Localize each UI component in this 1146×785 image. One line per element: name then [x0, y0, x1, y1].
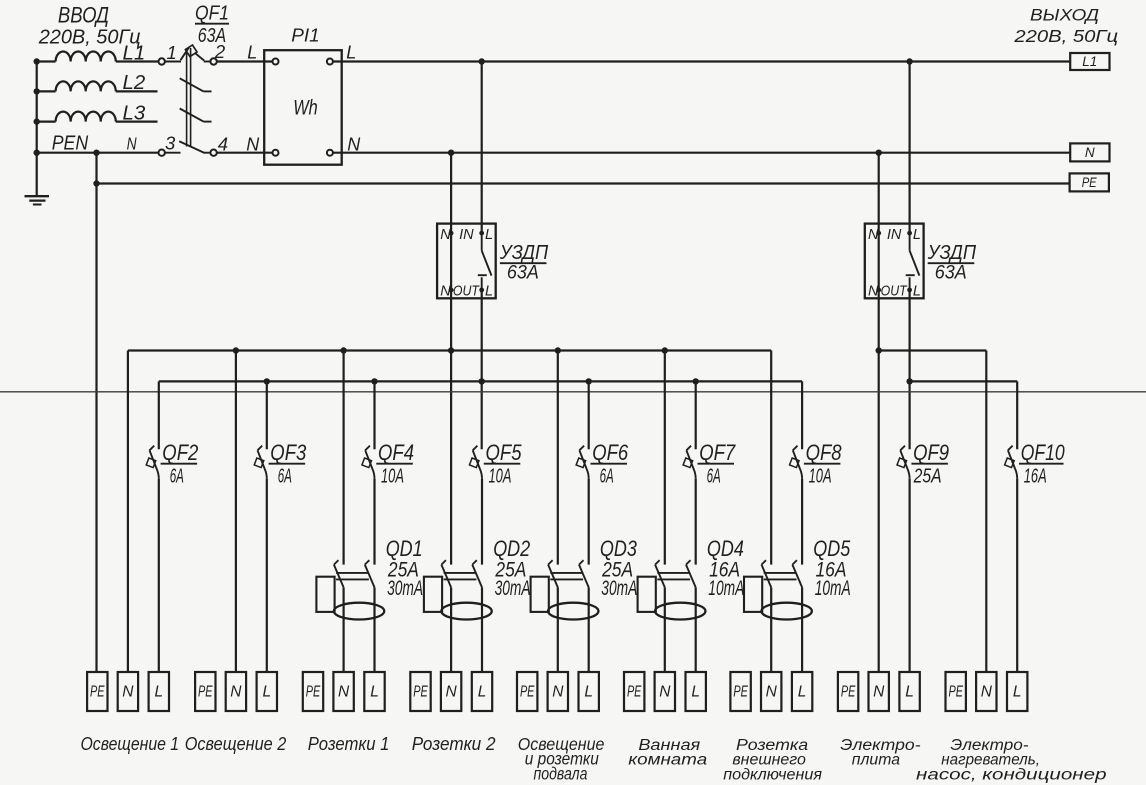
- svg-text:комната: комната: [628, 752, 707, 769]
- svg-text:PE: PE: [733, 684, 748, 701]
- svg-text:30mА: 30mА: [495, 577, 531, 600]
- svg-text:L: L: [913, 227, 921, 243]
- output terminal box N: [1070, 143, 1109, 161]
- terminal box N group 2: [226, 672, 246, 711]
- svg-text:QD4: QD4: [707, 536, 744, 561]
- svg-text:L: L: [485, 227, 493, 243]
- junction dot УЗДП2 L at bus: [906, 378, 912, 384]
- wire: group 7 L tail to terminal: [801, 587, 803, 672]
- terminal box PE group 4: [410, 672, 430, 711]
- wire: input vertical bus: [36, 62, 38, 197]
- wire: right L distribution bus: [910, 380, 1018, 382]
- pin label N right of meter: [347, 134, 361, 154]
- УЗДП terminal dots: [449, 231, 484, 293]
- load label group 3: Розетки 1: [308, 734, 390, 754]
- wire: left N distribution bus: [128, 349, 771, 351]
- wire: group 3 N tail to terminal: [343, 587, 345, 672]
- RCD QD3 mechanical bar: [550, 573, 583, 580]
- svg-text:QF1: QF1: [195, 1, 229, 24]
- svg-text:L3: L3: [123, 102, 146, 124]
- wire: group 3 L tail to terminal: [373, 587, 375, 672]
- svg-text:10А: 10А: [381, 465, 404, 488]
- svg-text:QD3: QD3: [600, 536, 638, 561]
- svg-text:63А: 63А: [198, 24, 226, 47]
- inductor coil L2 with wires: [37, 81, 158, 91]
- svg-text:N: N: [122, 684, 134, 701]
- svg-text:L: L: [247, 43, 257, 63]
- breaker QF1 terminal circle 3: [159, 150, 181, 156]
- wire: group 7 N drop: [770, 351, 772, 565]
- load label group 5: Освещение и розетки подвала: [518, 734, 605, 784]
- svg-text:L: L: [691, 684, 700, 701]
- terminal box L group 5: [579, 672, 599, 711]
- svg-text:N: N: [873, 684, 885, 701]
- svg-text:L: L: [346, 43, 356, 63]
- svg-text:63А: 63А: [507, 263, 539, 284]
- svg-text:QD2: QD2: [493, 536, 530, 561]
- wire: N row from input bus to terminal 3: [37, 152, 159, 154]
- RCD QD2 test box: [424, 577, 442, 612]
- RCD QD4 switch blades: [655, 560, 696, 587]
- wire: group 6 N drop: [664, 351, 666, 565]
- wire: group 6 L drop upper: [695, 381, 697, 449]
- terminal box L group 6: [686, 672, 706, 711]
- RCD QD3 test box: [531, 577, 549, 612]
- net label PEN: [52, 132, 89, 154]
- svg-text:10mА: 10mА: [708, 577, 744, 600]
- svg-text:PE: PE: [198, 684, 213, 701]
- wire: group 3 N drop: [343, 351, 345, 565]
- svg-text:Розетки 2: Розетки 2: [412, 734, 496, 754]
- svg-text:PE: PE: [90, 684, 105, 701]
- svg-text:1: 1: [167, 42, 177, 63]
- pin label L right of meter: [346, 43, 356, 63]
- load label group 2: Освещение 2: [185, 733, 287, 754]
- wire: group 9 L wire QF to terminal: [1016, 479, 1018, 672]
- svg-text:QF4: QF4: [378, 440, 414, 465]
- svg-text:PE: PE: [413, 684, 428, 701]
- svg-text:L: L: [262, 684, 271, 701]
- terminal box PE group 9: [946, 672, 966, 711]
- terminal box L group 4: [472, 672, 492, 711]
- RCBO УЗДП box: [437, 224, 496, 299]
- svg-text:Освещение 2: Освещение 2: [185, 733, 287, 754]
- wire: group 4 L drop upper: [0, 0, 1, 1]
- junction dots on left L bus: [264, 378, 699, 384]
- svg-text:L: L: [905, 684, 914, 701]
- RCD QD5 test box: [744, 577, 762, 612]
- wire: УЗДП2 L feed vertical lower: [908, 290, 910, 449]
- breaker QF1 pole 2 blade: [180, 78, 212, 91]
- svg-text:PE: PE: [306, 684, 321, 701]
- svg-text:PI1: PI1: [291, 24, 320, 45]
- label QF5 10А: [484, 440, 522, 488]
- terminal box N group 5: [548, 672, 568, 711]
- net label N: [127, 133, 137, 153]
- label QF7 6А: [698, 440, 736, 488]
- RCBO УЗДП1 group: [0, 0, 1, 1]
- wire: group 1 L drop upper: [158, 381, 160, 449]
- RCD QD2 switch blades: [441, 560, 482, 587]
- wire: neutral N row from meter to output terminal N: [333, 152, 1070, 154]
- output terminal box PE: [1070, 173, 1109, 191]
- wire: УЗДП1 L feed vertical lower: [481, 290, 483, 449]
- svg-text:Розетки 1: Розетки 1: [308, 734, 390, 754]
- terminal box L group 9: [1007, 672, 1027, 711]
- RCD QD3 differential transformer: [548, 603, 598, 620]
- svg-text:N: N: [338, 684, 350, 701]
- svg-text:10mА: 10mА: [815, 577, 851, 600]
- svg-text:PE: PE: [841, 684, 856, 701]
- label QD2 25А 30mА: [493, 536, 530, 600]
- pin label N left of meter: [217, 134, 273, 154]
- svg-text:10А: 10А: [809, 465, 832, 488]
- RCD QD1 differential transformer: [334, 603, 384, 620]
- wire: group 4 L tail to terminal: [481, 587, 483, 672]
- УЗДП pin labels IN row: [440, 227, 493, 243]
- wire: PE row to output terminal PE: [97, 182, 1070, 184]
- breaker QF3 blade: [254, 446, 267, 479]
- svg-text:6А: 6А: [600, 465, 614, 488]
- pin number 4: [218, 133, 228, 154]
- svg-text:УЗДП: УЗДП: [499, 241, 548, 264]
- wire: УЗДП1 L feed vertical upper: [481, 62, 483, 234]
- load label group 8: Электро- плита: [840, 737, 920, 769]
- wire: group 2 L wire QF to terminal: [266, 479, 268, 672]
- svg-text:QD1: QD1: [386, 536, 423, 561]
- svg-text:ВВОД: ВВОД: [58, 2, 109, 27]
- breaker QF1 pole 3 blade: [180, 109, 212, 122]
- RCD QD4 test box: [638, 577, 656, 612]
- svg-text:220В, 50Гц: 220В, 50Гц: [1013, 26, 1118, 46]
- terminal box N group 9: [976, 672, 996, 711]
- breaker QF5 blade: [469, 446, 482, 479]
- svg-text:PEN: PEN: [52, 132, 89, 154]
- label QD1 25А 30mА: [386, 536, 423, 600]
- junction dot N row / UZDP1 tap: [448, 150, 454, 156]
- svg-text:QF8: QF8: [806, 440, 843, 465]
- terminal box L group 2: [257, 672, 277, 711]
- output terminal box L1: [1070, 53, 1109, 70]
- svg-text:подвала: подвала: [534, 764, 588, 784]
- label QF2 6А: [161, 440, 199, 488]
- wire: group 7 L drop upper: [801, 381, 803, 449]
- terminal box N group 7: [761, 672, 781, 711]
- load label group 9: Электро- нагреватель, насос, кондиционер: [916, 737, 1107, 784]
- terminal box PE group 8: [838, 672, 858, 711]
- RCD QD4 differential transformer: [655, 603, 705, 620]
- terminal box PE group 5: [517, 672, 537, 711]
- wire: PEN vertical drop to PE: [95, 153, 97, 672]
- wire: group 3 L drop upper: [373, 381, 375, 449]
- terminal box N group 1: [118, 672, 138, 711]
- terminal box N group 4: [441, 672, 461, 711]
- svg-text:4: 4: [218, 133, 228, 154]
- svg-text:L1: L1: [123, 42, 146, 64]
- RCD QD5 differential transformer: [761, 603, 811, 620]
- breaker QF1 pole 4 blade: [179, 141, 204, 153]
- RCBO УЗДП2 group: [0, 0, 1, 1]
- RCD QD2 mechanical bar: [444, 573, 477, 580]
- junction dot УЗДП1 L at bus: [479, 378, 485, 384]
- svg-text:N: N: [246, 134, 260, 154]
- wire: УЗДП1 N feed vertical: [450, 153, 452, 565]
- wire: phase L row from meter to output terminal L1: [333, 60, 1070, 62]
- svg-text:насос, кондиционер: насос, кондиционер: [916, 767, 1107, 784]
- wire: group 5 N drop: [557, 351, 559, 565]
- wire: group 7 N tail to terminal: [770, 587, 772, 672]
- junction dots on left N bus: [233, 347, 668, 353]
- pin number 3: [165, 132, 176, 153]
- terminal box PE group 7: [730, 672, 750, 711]
- wire: УЗДП2 N feed vertical: [878, 153, 880, 672]
- svg-text:N: N: [440, 284, 451, 300]
- meter terminal circles: [273, 59, 333, 156]
- wire: group 1 L wire QF to terminal: [158, 479, 160, 672]
- svg-text:IN: IN: [887, 227, 902, 243]
- svg-text:N: N: [347, 134, 361, 154]
- junction node PEN split: [93, 150, 99, 156]
- svg-text:N: N: [659, 684, 671, 701]
- svg-text:QF5: QF5: [486, 440, 523, 465]
- header: input label ВВОД 220В 50Гц: [38, 2, 141, 48]
- wire: УЗДП2 L feed vertical upper: [908, 62, 910, 234]
- pin number 1: [167, 42, 177, 63]
- svg-text:N: N: [440, 227, 451, 243]
- terminal box N group 8: [869, 672, 889, 711]
- svg-text:QF10: QF10: [1021, 440, 1066, 465]
- wire: group 4 N tail to terminal: [450, 587, 452, 672]
- terminal box PE group 6: [624, 672, 644, 711]
- wire: group 4 L wire QF to RCD: [481, 479, 483, 565]
- load label group 1: Освещение 1: [81, 733, 180, 754]
- junction dot N row / UZDP2 tap: [876, 150, 882, 156]
- label QF1 63A: [195, 1, 229, 47]
- wire: group 5 N tail to terminal: [557, 587, 559, 672]
- breaker QF1 terminal circle 1: [159, 58, 182, 64]
- svg-text:QF2: QF2: [162, 440, 198, 465]
- label QF4 10А: [376, 440, 414, 488]
- svg-text:N: N: [445, 684, 457, 701]
- label QF8 10А: [804, 440, 842, 488]
- load label group 7: Розетка внешнего подключения: [723, 737, 822, 784]
- svg-text:30mА: 30mА: [601, 577, 637, 600]
- inductor coil L3 with wires: [37, 112, 158, 122]
- svg-text:L: L: [1013, 684, 1022, 701]
- svg-text:QF3: QF3: [270, 440, 307, 465]
- svg-text:L: L: [798, 684, 807, 701]
- label УЗДП 63А: [499, 241, 548, 284]
- junction dot L row / UZDP2 tap: [906, 58, 912, 64]
- svg-text:L: L: [485, 284, 493, 300]
- svg-text:OUT: OUT: [881, 284, 908, 300]
- net label L2: [123, 72, 146, 94]
- svg-text:10А: 10А: [489, 465, 512, 488]
- breaker QF8 blade: [790, 446, 803, 479]
- УЗДП internal switch blade: [478, 233, 492, 290]
- svg-text:N: N: [868, 227, 879, 243]
- RCD QD1 switch blades: [334, 560, 375, 587]
- УЗДП pin labels OUT row: [440, 284, 493, 300]
- label QF3 6А: [269, 440, 307, 488]
- junction dot УЗДП1 N at bus: [448, 347, 454, 353]
- svg-text:N: N: [230, 684, 242, 701]
- net label L1: [123, 42, 146, 64]
- wire: group 6 L tail to terminal: [695, 587, 697, 672]
- wire: terminal 2 to meter PI1: [217, 60, 273, 62]
- svg-text:QD5: QD5: [813, 536, 851, 561]
- svg-text:L2: L2: [123, 72, 146, 94]
- svg-text:QF6: QF6: [592, 440, 629, 465]
- svg-text:УЗДП: УЗДП: [927, 241, 976, 264]
- svg-text:PE: PE: [948, 684, 963, 701]
- breaker QF4 blade: [362, 446, 375, 479]
- RCD QD3 switch blades: [548, 560, 589, 587]
- RCD QD1 mechanical bar: [336, 573, 369, 580]
- svg-text:OUT: OUT: [453, 284, 480, 300]
- inductor coil L1 with wires: [37, 51, 159, 61]
- svg-text:N: N: [127, 133, 137, 153]
- svg-text:L: L: [154, 684, 163, 701]
- junction dot PE branch: [93, 180, 99, 186]
- svg-text:N: N: [981, 684, 993, 701]
- label УЗДП 63А: [927, 241, 976, 284]
- terminal box L group 7: [792, 672, 812, 711]
- svg-text:L1: L1: [1082, 54, 1097, 69]
- label PI1: [291, 24, 320, 45]
- svg-text:Освещение 1: Освещение 1: [81, 733, 180, 754]
- svg-text:N: N: [1085, 145, 1095, 160]
- breaker QF9 blade: [897, 446, 910, 479]
- breaker QF2 blade: [146, 446, 159, 479]
- RCBO УЗДП box: [865, 224, 924, 299]
- net label L3: [123, 102, 146, 124]
- RCD QD5 mechanical bar: [764, 573, 797, 580]
- junction dots on input bus: [34, 58, 40, 156]
- terminal box N group 6: [655, 672, 675, 711]
- junction dot УЗДП2 N at bus: [876, 347, 882, 353]
- svg-text:6А: 6А: [707, 465, 721, 488]
- ground symbol: [25, 196, 50, 204]
- terminal box PE group 1: [87, 672, 107, 711]
- svg-text:L: L: [478, 684, 487, 701]
- RCD QD2 differential transformer: [441, 603, 491, 620]
- wire: group 5 L wire QF to RCD: [588, 479, 590, 565]
- breaker QF1 mechanical link: [187, 48, 191, 147]
- svg-text:63А: 63А: [935, 263, 967, 284]
- wire: group 5 L tail to terminal: [588, 587, 590, 672]
- breaker QF6 blade: [576, 446, 589, 479]
- УЗДП terminal dots: [876, 231, 912, 293]
- wire: group 6 L wire QF to RCD: [695, 479, 697, 565]
- svg-text:плита: плита: [852, 752, 901, 769]
- terminal box N group 3: [333, 672, 353, 711]
- wire: group 8 L drop upper: [0, 0, 1, 1]
- svg-text:PE: PE: [1082, 175, 1098, 190]
- svg-text:L: L: [584, 684, 593, 701]
- svg-text:N: N: [868, 284, 879, 300]
- svg-text:30mА: 30mА: [387, 577, 423, 600]
- wire: group 6 N tail to terminal: [664, 587, 666, 672]
- wire: right N distribution bus: [879, 349, 987, 351]
- pin label L left of meter: [247, 43, 257, 63]
- wire: group 9 N drop: [985, 351, 987, 673]
- breaker QF1 terminal circle 2: [204, 58, 217, 64]
- wire: left L distribution bus: [159, 380, 802, 382]
- svg-text:ВЫХОД: ВЫХОД: [1030, 6, 1099, 25]
- meter Wh marking: [293, 97, 318, 120]
- terminal box L group 3: [364, 672, 384, 711]
- svg-text:25А: 25А: [913, 465, 942, 488]
- RCD QD4 mechanical bar: [657, 573, 690, 580]
- svg-text:3: 3: [165, 132, 176, 153]
- label QF9 25А: [911, 440, 949, 488]
- svg-text:QF9: QF9: [913, 440, 949, 465]
- svg-text:PE: PE: [627, 684, 642, 701]
- label QD3 25А 30mА: [600, 536, 638, 600]
- label QD4 16А 10mА: [707, 536, 744, 600]
- label QD5 16А 10mА: [813, 536, 851, 600]
- breaker QF10 blade: [1005, 446, 1018, 479]
- label QF6 6А: [591, 440, 629, 488]
- terminal box L group 8: [899, 672, 919, 711]
- breaker QF1 terminal circle 4: [204, 150, 217, 156]
- УЗДП internal switch blade: [906, 233, 920, 290]
- wire: group 5 L drop upper: [588, 381, 590, 449]
- RCD QD5 switch blades: [762, 560, 803, 587]
- fold line artifact: [0, 391, 1146, 393]
- wire: group 2 L drop upper: [266, 381, 268, 449]
- wire: group 9 L drop upper: [1016, 381, 1018, 449]
- terminal box PE group 2: [195, 672, 215, 711]
- wire: group 2 N drop: [235, 351, 237, 673]
- svg-text:Wh: Wh: [293, 97, 318, 120]
- junction dot L row / UZDP1 tap: [479, 58, 485, 64]
- wire: group 3 L wire QF to RCD: [373, 479, 375, 565]
- breaker QF7 blade: [683, 446, 696, 479]
- svg-text:PE: PE: [520, 684, 535, 701]
- УЗДП pin labels OUT row: [868, 284, 921, 300]
- pin number 2: [214, 41, 226, 62]
- УЗДП pin labels IN row: [868, 227, 921, 243]
- load label group 6: Ванная комната: [628, 737, 707, 769]
- svg-text:N: N: [766, 684, 778, 701]
- breaker QF1 pole 1 blade with trip square: [181, 45, 205, 61]
- svg-text:16А: 16А: [1024, 465, 1047, 488]
- terminal box PE group 3: [303, 672, 323, 711]
- svg-text:L: L: [370, 684, 379, 701]
- svg-text:6А: 6А: [278, 465, 292, 488]
- svg-text:N: N: [552, 684, 564, 701]
- svg-text:QF7: QF7: [699, 440, 736, 465]
- load label group 4: Розетки 2: [412, 734, 496, 754]
- wire: group 8 L wire QF to terminal: [908, 479, 910, 672]
- RCD QD1 test box: [316, 577, 334, 612]
- meter PI1 box: [264, 50, 342, 165]
- svg-text:6А: 6А: [170, 465, 184, 488]
- svg-text:L: L: [913, 284, 921, 300]
- svg-text:подключения: подключения: [723, 767, 822, 784]
- terminal box L group 1: [149, 672, 169, 711]
- wire: group 1 N drop: [127, 351, 129, 673]
- svg-text:IN: IN: [459, 227, 474, 243]
- label QF10 16А: [1019, 440, 1065, 488]
- wire: group 7 L wire QF to RCD: [801, 479, 803, 565]
- header: output label ВЫХОД 220В 50Гц: [1013, 6, 1118, 46]
